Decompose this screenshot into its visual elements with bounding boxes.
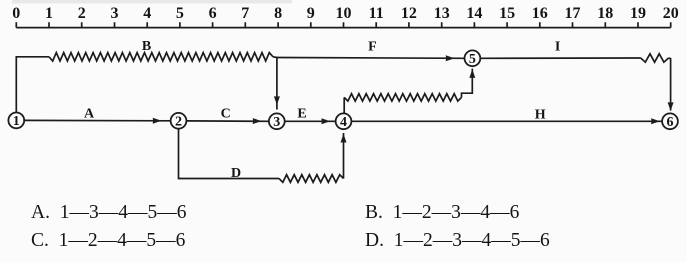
float zigzag of activity I xyxy=(641,54,669,62)
svg-text:3: 3 xyxy=(111,5,119,22)
node 3 circle xyxy=(269,113,285,129)
svg-text:0: 0 xyxy=(12,5,20,22)
arrowhead G up into node5 xyxy=(469,69,475,78)
activity F arrow line (node3 rail to node5) xyxy=(277,57,465,60)
svg-text:D: D xyxy=(231,166,241,181)
svg-text:15: 15 xyxy=(499,5,515,22)
svg-text:1: 1 xyxy=(45,5,53,22)
svg-text:C: C xyxy=(221,106,231,121)
node 2 circle xyxy=(171,113,187,129)
answer option D xyxy=(365,230,550,252)
activity H arrow line (node4 to node6) xyxy=(351,120,662,122)
svg-text:5: 5 xyxy=(176,5,184,22)
svg-text:20: 20 xyxy=(663,5,679,22)
arrowhead D up into node4 xyxy=(341,134,347,143)
answer option C xyxy=(31,230,185,252)
arrowhead C into node3 xyxy=(253,118,262,124)
svg-text:5: 5 xyxy=(469,52,476,67)
arrowhead E into node4 xyxy=(321,118,330,124)
svg-text:17: 17 xyxy=(565,5,581,22)
answer option A xyxy=(31,202,186,224)
arrowhead B down into node3 xyxy=(274,96,280,105)
svg-text:7: 7 xyxy=(241,5,249,22)
svg-text:12: 12 xyxy=(401,5,417,22)
wire: G step up into node 5 xyxy=(462,69,473,98)
scan smudge top edge xyxy=(12,0,292,4)
arrowhead I down into node6 xyxy=(668,102,674,111)
svg-text:1: 1 xyxy=(13,114,20,129)
svg-text:F: F xyxy=(368,39,377,54)
ruler ticks 0-20 xyxy=(16,22,670,27)
svg-text:19: 19 xyxy=(630,5,646,22)
svg-text:B: B xyxy=(142,39,151,54)
svg-text:8: 8 xyxy=(274,5,282,22)
svg-text:I: I xyxy=(555,39,560,54)
wire: node1 riser up to rail and short rail to zigzag B xyxy=(16,57,49,113)
node 5 circle xyxy=(465,50,481,66)
wire: D riser up into node 4 xyxy=(343,133,345,179)
node 4 circle xyxy=(336,113,352,129)
svg-text:10: 10 xyxy=(336,5,352,22)
svg-text:4: 4 xyxy=(143,5,151,22)
wire: I elbow down into node 6 xyxy=(669,58,671,111)
svg-text:6: 6 xyxy=(209,5,217,22)
float zigzag of activity D xyxy=(279,175,344,183)
svg-text:9: 9 xyxy=(307,5,315,22)
arrowhead H into node6 xyxy=(651,118,660,124)
node 6 circle xyxy=(662,113,678,129)
activity E arrow line (node3 to node4) xyxy=(285,120,336,122)
svg-text:14: 14 xyxy=(466,5,482,22)
activity I line from node5 xyxy=(480,57,640,59)
svg-text:18: 18 xyxy=(597,5,613,22)
svg-text:11: 11 xyxy=(369,5,384,22)
activity C arrow line (node2 to node3) xyxy=(186,120,269,122)
wire: rail elbow above node3, drop into node 3 xyxy=(273,57,277,110)
svg-text:3: 3 xyxy=(273,115,280,130)
ruler baseline xyxy=(16,27,670,29)
svg-text:2: 2 xyxy=(78,5,86,22)
float zigzag of activity B xyxy=(49,53,273,61)
activity A arrow line (node1 to node2) xyxy=(24,119,170,121)
svg-text:4: 4 xyxy=(340,115,347,130)
activity D elbow: node2 down, across xyxy=(179,129,280,179)
svg-text:2: 2 xyxy=(175,115,182,130)
wire: node4 riser to G zigzag xyxy=(343,97,345,113)
svg-text:H: H xyxy=(535,107,546,122)
node 1 circle xyxy=(8,113,24,129)
svg-text:E: E xyxy=(297,107,306,122)
svg-text:A: A xyxy=(84,106,95,121)
ruler numbers 0-20 xyxy=(12,5,678,22)
svg-text:16: 16 xyxy=(532,5,548,22)
float zigzag of activity G (node4 to node5) xyxy=(344,94,461,101)
svg-text:6: 6 xyxy=(667,115,674,130)
arrowhead F into node5 xyxy=(446,55,455,61)
svg-text:13: 13 xyxy=(434,5,450,22)
arrowhead A into node2 xyxy=(153,118,162,124)
answer option B xyxy=(365,202,519,224)
